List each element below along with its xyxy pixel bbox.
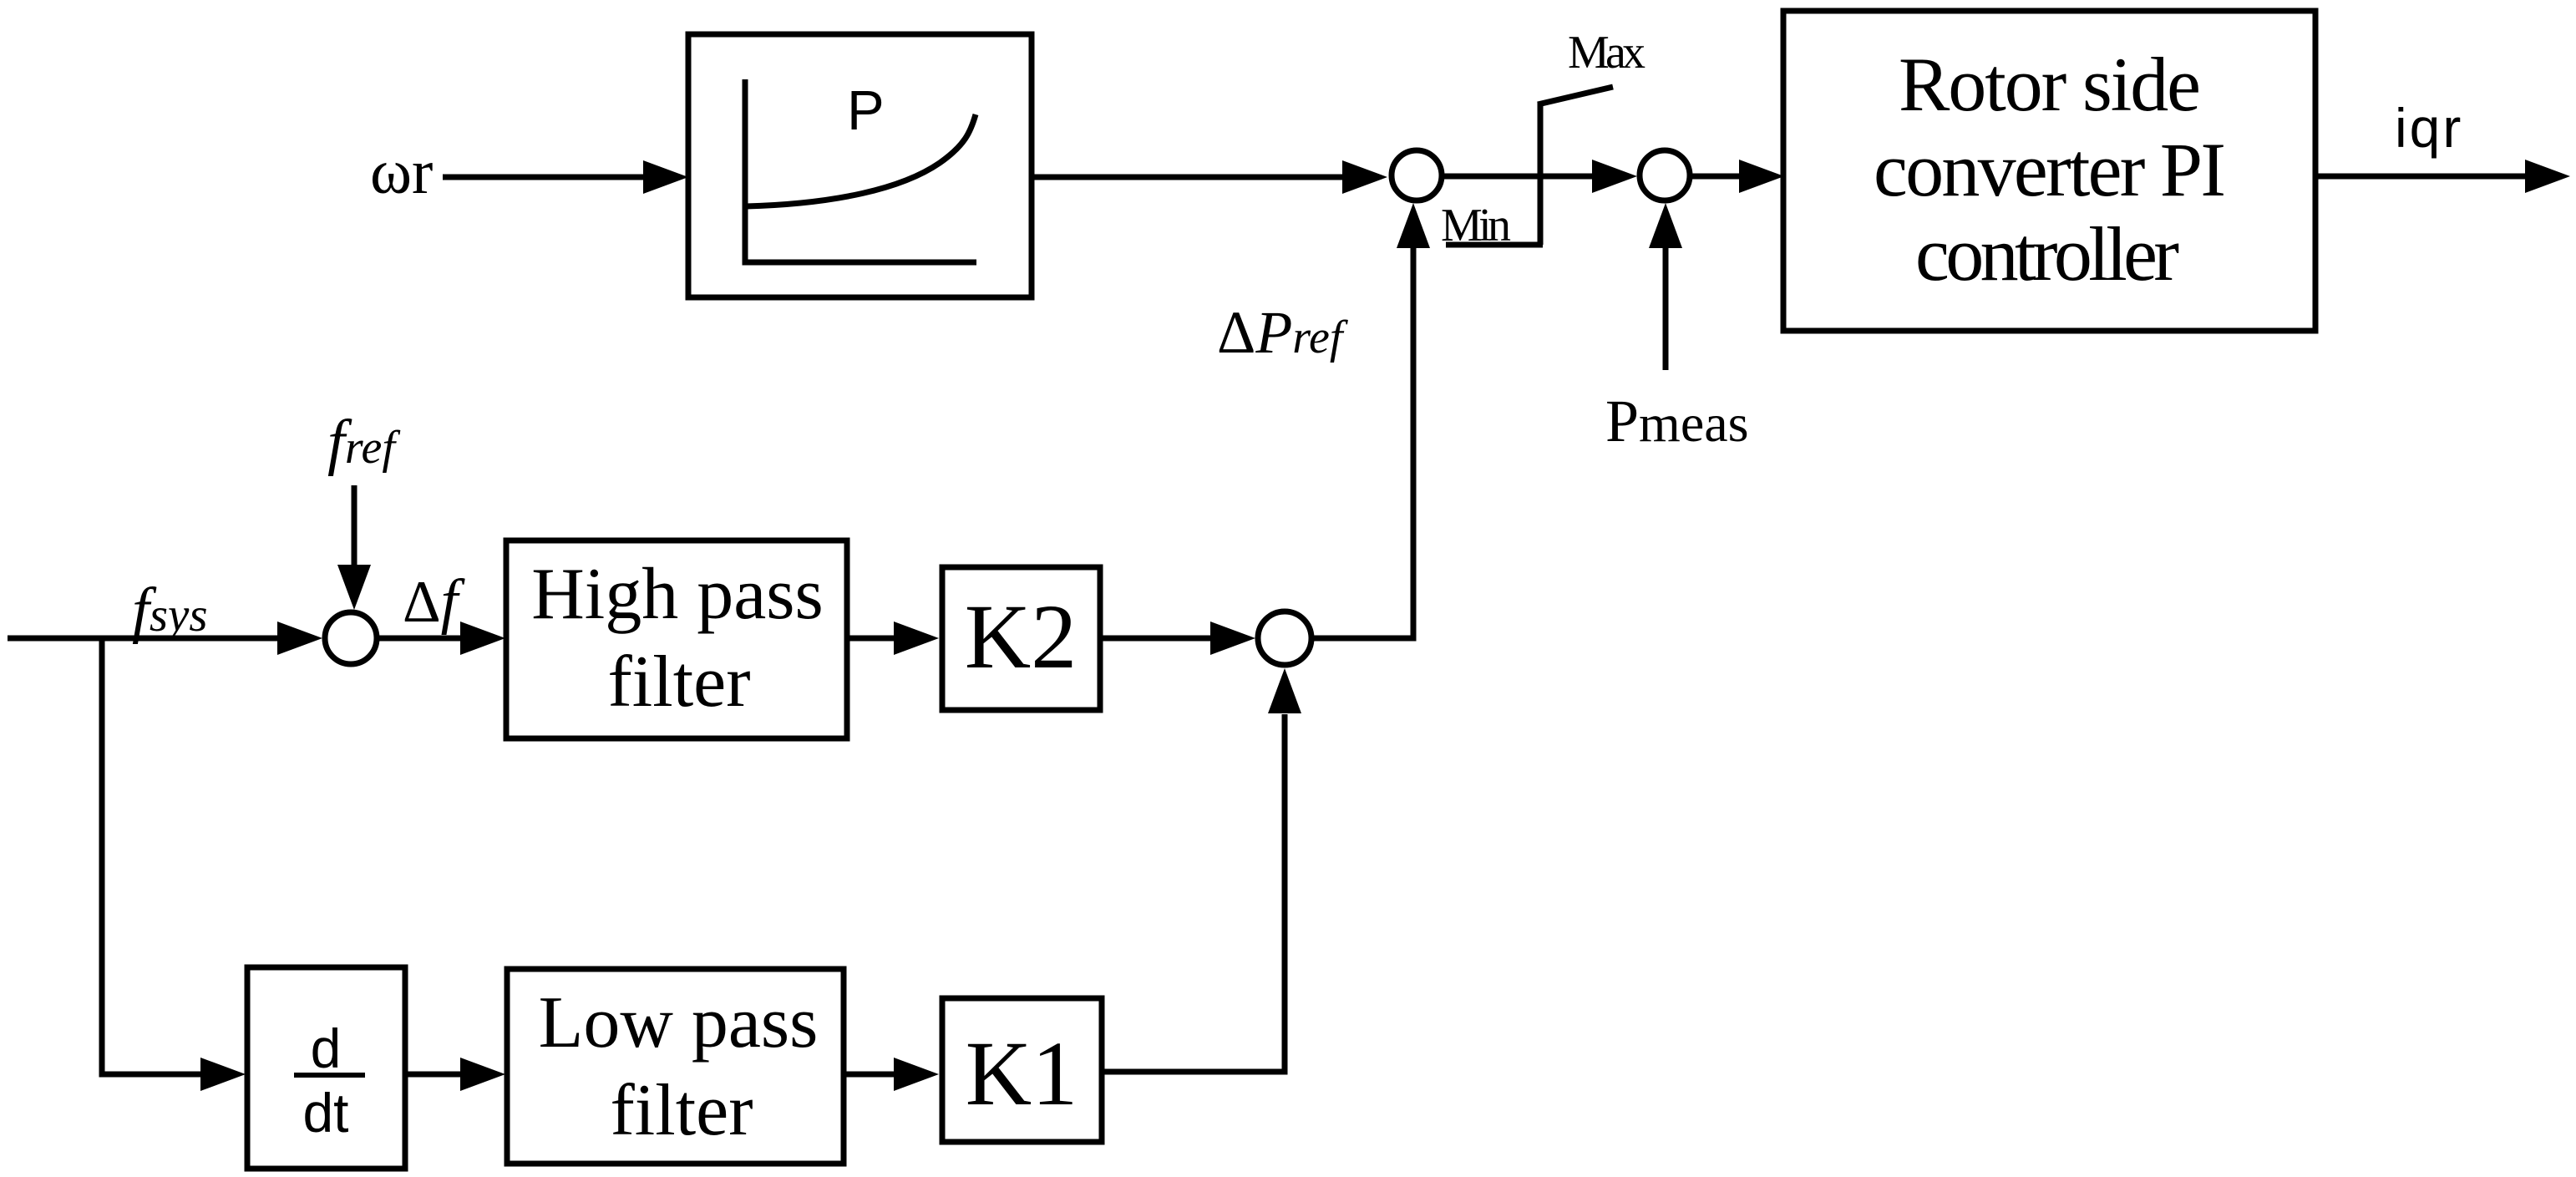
wire low pass filter to K1 [844,1072,895,1078]
wire K2 to central summing circle [1100,636,1211,642]
arrowhead into controller block [1739,160,1784,193]
wire central sum to circle 1 (dPref path) [1314,247,1413,638]
arrowhead Pmeas into circle 2 [1649,203,1682,248]
arrowhead into K1 [894,1058,939,1091]
summing circle 2 [1640,150,1690,200]
arrowhead into P block [643,160,688,194]
svg-text:Low pass: Low pass [539,982,819,1063]
wire fsys branch down to d/dt [102,638,201,1074]
block P (power curve) [688,34,1032,297]
svg-text:controller: controller [1915,211,2179,297]
block low pass filter [507,969,844,1164]
wire controller output iqr [2315,174,2526,180]
svg-text:Δf: Δf [403,567,466,636]
central summing circle B [1258,611,1311,665]
arrowhead into high pass filter [460,621,505,655]
wire P block to summing circle 1 [1032,175,1343,180]
block d/dt [247,967,405,1169]
svg-text:High pass: High pass [531,554,824,635]
arrowhead K1 into central circle [1268,668,1301,713]
block K2 [942,567,1100,710]
wire high pass filter to K2 [847,636,895,642]
svg-text:Rotor side: Rotor side [1899,42,2201,127]
wire wr to P block [443,175,645,180]
wire circle 1 to circle 2 [1444,174,1593,180]
limiter saturation symbol [1446,87,1613,245]
svg-text:K2: K2 [965,586,1077,687]
wire circle 2 to controller block [1692,174,1740,180]
svg-text:P: P [847,79,885,142]
svg-text:Min: Min [1441,200,1511,251]
svg-text:d: d [311,1017,342,1079]
block K1 [942,998,1102,1142]
svg-text:ωr: ωr [370,137,433,207]
arrowhead into circle 2 [1592,160,1637,193]
svg-text:Max: Max [1568,27,1645,79]
svg-text:Pmeas: Pmeas [1605,388,1749,454]
arrowhead into central summing circle [1210,621,1255,655]
wire K1 up to central summing circle [1102,714,1285,1072]
wire fref input [352,485,357,566]
wire fsys input [8,636,278,642]
summing circle 1 [1392,150,1442,200]
wire Pmeas input [1663,248,1669,370]
svg-text:converter PI: converter PI [1874,127,2226,212]
svg-text:K1: K1 [966,1022,1078,1124]
arrowhead into d/dt block [200,1058,246,1091]
svg-text:filter: filter [610,1070,753,1151]
wire circle A to high pass filter [379,636,461,642]
block high pass filter [506,540,847,738]
arrowhead dPref into circle 1 [1397,203,1430,248]
arrowhead into circle 1 [1342,160,1387,194]
arrowhead into low pass filter [460,1058,505,1091]
arrowhead fsys into circle A [277,621,322,655]
block U1 rotor side converter PI controller [1783,11,2315,331]
wire d/dt to low pass filter [405,1072,461,1078]
arrowhead fref into circle A [337,565,371,610]
svg-text:dt: dt [302,1082,348,1144]
summing circle A (fsys-fref) [325,612,377,664]
arrowhead output iqr [2525,160,2570,193]
svg-text:iqr: iqr [2395,97,2463,159]
svg-text:filter: filter [607,642,750,723]
arrowhead into K2 [894,621,939,655]
